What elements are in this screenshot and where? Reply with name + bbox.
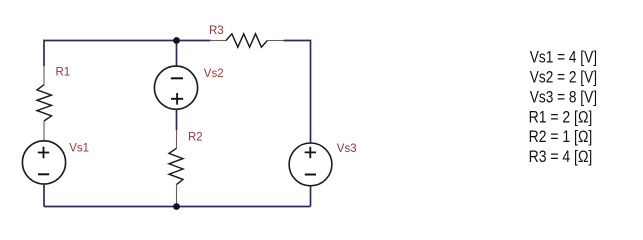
voltage source Vs3 circle xyxy=(289,143,332,186)
Vs1 plus sign xyxy=(38,147,49,158)
resistor R3 left pin xyxy=(210,40,226,42)
svg-text:Vs3 = 8 [V]: Vs3 = 8 [V] xyxy=(530,87,597,106)
resistor R1 bottom pin / wire to Vs1 xyxy=(43,121,45,141)
wire Vs3 to bottom-right corner xyxy=(310,186,312,207)
Vs2 minus sign xyxy=(171,77,183,79)
junction node top (middle branch meets top wire) xyxy=(173,37,180,44)
Vs3 plus sign xyxy=(305,147,316,158)
wire bottom horizontal: left corner to bottom node xyxy=(44,206,177,208)
junction node bottom (middle branch meets bottom wire) xyxy=(173,203,180,210)
wire top node to R3 left lead xyxy=(177,40,211,42)
wire left vertical: top corner down to R1 xyxy=(43,40,45,67)
Vs2 plus sign xyxy=(171,93,183,105)
svg-text:R1: R1 xyxy=(56,66,71,78)
svg-text:R1 = 2 [Ω]: R1 = 2 [Ω] xyxy=(529,107,593,126)
voltage source Vs1 circle xyxy=(22,141,65,184)
wire R3 to top-right corner and down to Vs3 xyxy=(284,41,311,144)
Vs1 minus sign xyxy=(38,173,49,175)
resistor R2 top pin xyxy=(176,130,178,148)
svg-text:R3: R3 xyxy=(209,25,224,37)
voltage source Vs2 circle xyxy=(154,66,197,109)
resistor R3 zigzag xyxy=(226,34,267,47)
resistor R1 zigzag xyxy=(37,85,52,121)
resistor R1 top pin xyxy=(43,66,45,84)
svg-text:R3 = 4 [Ω]: R3 = 4 [Ω] xyxy=(529,147,593,166)
Vs3 minus sign xyxy=(305,174,316,176)
resistor R2 zigzag xyxy=(169,148,183,184)
wire Vs2 to R2 xyxy=(176,110,178,131)
wire middle: top node down to Vs2 xyxy=(176,41,178,67)
svg-text:Vs1: Vs1 xyxy=(69,143,89,155)
svg-text:Vs2 = 2 [V]: Vs2 = 2 [V] xyxy=(530,68,597,87)
svg-text:Vs2: Vs2 xyxy=(204,68,224,80)
wire Vs1 to bottom-left corner xyxy=(43,184,45,207)
svg-text:R2 = 1 [Ω]: R2 = 1 [Ω] xyxy=(529,127,593,146)
wire top-left horizontal: left corner to top node xyxy=(44,40,177,42)
svg-text:R2: R2 xyxy=(188,131,203,143)
wire bottom horizontal: bottom node to right corner xyxy=(177,206,311,208)
resistor R3 right pin xyxy=(267,40,283,42)
svg-text:Vs3: Vs3 xyxy=(337,143,357,155)
resistor R2 bottom pin to bottom node xyxy=(176,185,178,207)
svg-text:Vs1 = 4 [V]: Vs1 = 4 [V] xyxy=(530,48,597,67)
